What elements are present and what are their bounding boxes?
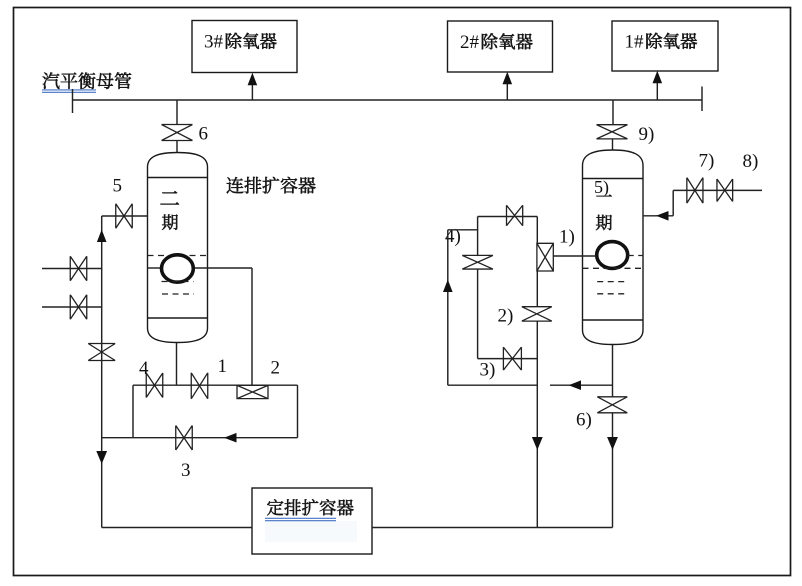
label 一期 inside vessel [596,195,612,231]
svg-text:6: 6 [199,124,209,145]
svg-text:5: 5 [113,176,123,197]
arrowhead down on left drop [96,451,107,464]
box 1#除氧器 [612,21,718,71]
svg-text:9): 9) [639,124,655,145]
wire right manifold top line [478,216,538,218]
box 3#除氧器 [192,21,297,73]
arrowhead left on blowdown line [569,380,582,390]
valve 2） [522,307,552,321]
water level dashed line left vessel [148,255,208,257]
label 2） [498,306,514,327]
short dashed line right vessel b [597,293,626,295]
valve 6 [162,125,193,141]
wire manifold right drop [297,385,299,438]
svg-text:8): 8) [743,151,759,172]
svg-text:3: 3 [181,460,191,481]
arrowhead into 2# deaerator [503,72,513,85]
valve 3 [176,425,193,450]
blue double underline under 定排扩容器 [265,518,336,520]
wire right manifold right leg a [536,217,538,244]
valve 5 [116,204,133,229]
vessel 连排扩容器 二期 shell [148,153,208,343]
header right end tick [701,87,703,112]
wire valve 1） to vessel [553,255,597,257]
arrowhead into 1# deaerator [653,71,663,84]
light band in flash tank box [265,521,357,542]
label 1 [218,356,228,377]
arrowhead up on left drop [97,230,107,243]
label 5） at vessel top [594,177,609,198]
label 二期 inside vessel [161,191,179,230]
vessel 一期 shell [583,150,644,345]
wire level gauge to valve 2 drop [251,268,253,385]
valve on lower left stub [70,295,87,320]
label 连排扩容器 [227,177,316,194]
wire to 2# deaerator [506,84,508,101]
box 定排扩容器 [252,488,372,554]
svg-text:1): 1) [559,227,575,248]
valve 4） [462,255,493,269]
svg-text:2: 2 [271,358,281,379]
wire stub lower left [42,306,102,308]
wire left drop from valve 5 corner [101,216,103,528]
arrowhead into vessel right [656,211,669,221]
label 定排扩容器 [267,499,353,515]
wire 4） drop to manifold [448,384,538,386]
label 2 [271,358,281,379]
wire steam balance header [73,99,703,101]
svg-text:5): 5) [594,177,609,198]
valve 6） [597,397,627,413]
label 3） [480,360,496,381]
svg-text:3#: 3# [204,32,224,53]
valve 8） [717,179,733,202]
wire blowdown arrow line [550,384,613,386]
label 6） [576,410,592,431]
label steam balance header 汽平衡母管 [43,72,132,89]
label 1#除氧器 [625,32,698,53]
arrowhead into 3# deaerator [248,73,258,86]
arrowhead left on lower line [224,433,237,443]
wire vessel bottom outlet left [176,343,178,386]
blue double underline under 汽平衡 [42,90,96,92]
valve 9 [597,125,628,139]
valve 1 [191,373,208,399]
wire drum level tap left [148,267,253,269]
wire vessel bottom outlet right [612,345,614,397]
svg-text:2): 2) [498,306,514,327]
box 2#除氧器 [448,21,553,72]
valve 3） [503,347,521,370]
wire header to valve 6 [176,100,178,125]
wire right manifold right leg b [536,271,538,307]
wire left manifold lower line [102,437,298,439]
wire right manifold right leg c [536,321,538,527]
valve 2 rect [237,385,268,398]
wire to 1# deaerator [656,83,658,101]
wire below valve 6） [612,413,614,528]
header left end tick [72,89,74,113]
svg-text:6): 6) [576,410,592,431]
label 3 [181,460,191,481]
label 6 [199,124,209,145]
label 3#除氧器 [204,32,277,53]
valve 1） rect [537,243,553,271]
wire 4） jog [448,229,478,231]
wire valve 6 to vessel top [176,141,178,154]
wire valve 5 line [102,215,148,217]
svg-text:1#: 1# [625,32,645,53]
arrowhead down on right manifold [532,437,543,450]
short dashed line left vessel a [162,281,194,283]
wire manifold left connector [132,385,134,438]
label 8） [743,151,759,172]
short dashed line left vessel b [162,293,194,295]
valve on upper left stub [70,256,87,281]
water level dashed line right vessel [583,267,644,269]
wire right manifold left leg lower [477,269,479,359]
wire valve 3） line [478,358,538,360]
level gauge circle left vessel [162,255,194,282]
svg-text:3): 3) [480,360,496,381]
label 7） [699,151,715,172]
label 1） [559,227,575,248]
wire inlet into vessel [643,215,673,217]
wire left manifold upper line [133,384,298,386]
wire inlet jog down [672,190,674,215]
wire bottom run left [102,527,252,529]
level gauge circle right vessel [597,242,628,269]
svg-text:7): 7) [699,151,715,172]
wire inlet from right [673,189,762,191]
label 5 [113,176,123,197]
dashed line right of circle [628,255,643,257]
wire bottom run right [372,527,613,529]
label 9） [639,124,655,145]
wire stub upper left [42,268,102,270]
arrowhead up on 4） drop [443,280,453,293]
valve 7） [687,178,703,204]
label 4） [445,226,461,247]
short dashed line right vessel a [597,281,627,283]
wire right manifold left leg upper [477,217,479,256]
arrowhead down below valve 6） [607,437,618,450]
wire header to valve 9 [612,100,614,125]
label 2#除氧器 [460,32,533,53]
wire to 3# deaerator [251,84,253,101]
valve on left drop [88,344,115,361]
svg-text:2#: 2# [460,32,480,53]
wire 4） drop left [447,230,449,385]
label 4 [139,358,149,379]
valve on right manifold top [507,205,523,226]
svg-text:1: 1 [218,356,228,377]
valve 4 [146,373,163,398]
wire valve 9 to vessel top [612,139,614,151]
